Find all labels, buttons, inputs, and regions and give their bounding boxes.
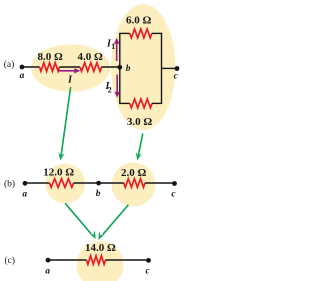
green arrow: series group to 12-ohm <box>58 87 70 161</box>
green arrow: 2-ohm to 14-ohm <box>98 205 128 240</box>
green arrow: parallel group to 2-ohm <box>136 134 143 161</box>
svg-text:6.0 Ω: 6.0 Ω <box>126 14 152 26</box>
svg-text:1: 1 <box>111 42 115 51</box>
svg-text:3.0 Ω: 3.0 Ω <box>127 116 153 128</box>
wire a to R12 <box>25 182 50 184</box>
green arrow: 12-ohm to 14-ohm <box>65 203 96 239</box>
node c <box>172 181 177 186</box>
resistor 12.0 ohm <box>50 179 74 188</box>
wire b to R2 <box>99 182 124 184</box>
svg-text:(c): (c) <box>5 255 16 266</box>
svg-text:(b): (b) <box>4 178 15 189</box>
wire R8 to R4 <box>60 66 81 68</box>
current arrow I2 <box>115 75 120 98</box>
node a <box>20 65 25 70</box>
svg-text:a: a <box>22 189 27 199</box>
highlight ellipse around parallel pair (a) <box>111 4 175 130</box>
wire: bottom left stub <box>119 102 130 104</box>
resistor 4.0 ohm <box>80 63 102 72</box>
current arrow I1 <box>114 38 119 61</box>
node c <box>175 66 180 71</box>
svg-text:8.0 Ω: 8.0 Ω <box>38 51 64 63</box>
wire: loop to node c <box>162 67 178 69</box>
svg-text:c: c <box>174 71 178 81</box>
wire: top left stub <box>119 32 130 34</box>
wire: right vertical of loop <box>161 33 163 103</box>
wire R12 to node b <box>74 182 99 184</box>
wire: top right stub <box>152 32 162 34</box>
svg-text:b: b <box>126 64 131 74</box>
wire: bottom right stub <box>152 102 162 104</box>
wire: left vertical of loop <box>119 33 121 103</box>
svg-text:b: b <box>96 189 101 199</box>
svg-text:a: a <box>20 71 25 81</box>
svg-text:2.0 Ω: 2.0 Ω <box>121 167 147 179</box>
node a <box>23 181 28 186</box>
resistor 3.0 ohm <box>130 99 152 108</box>
current arrow I <box>59 68 81 73</box>
resistor 2.0 ohm <box>124 179 145 188</box>
svg-text:(a): (a) <box>4 59 15 70</box>
wire a to R8 <box>22 66 40 68</box>
svg-text:2: 2 <box>108 85 112 94</box>
svg-text:a: a <box>45 267 50 277</box>
svg-text:14.0 Ω: 14.0 Ω <box>85 242 116 254</box>
highlight circle around 12-ohm (b) <box>45 164 85 204</box>
svg-text:c: c <box>146 267 150 277</box>
node b <box>96 181 101 186</box>
wire a to R14 <box>48 259 87 261</box>
wire R4 to node b <box>102 66 120 68</box>
resistor 14.0 ohm <box>87 256 106 265</box>
highlight circle around 14-ohm (c) <box>77 241 124 281</box>
svg-text:c: c <box>171 190 175 200</box>
highlight circle around 2-ohm (b) <box>112 163 156 207</box>
svg-text:12.0 Ω: 12.0 Ω <box>43 166 74 178</box>
resistor 6.0 ohm <box>130 29 152 38</box>
highlight ellipse around series pair (a) <box>31 44 110 92</box>
node c <box>146 258 151 263</box>
svg-text:4.0 Ω: 4.0 Ω <box>78 51 104 63</box>
wire R14 to node c <box>106 259 149 261</box>
resistor 8.0 ohm <box>40 63 60 72</box>
wire R2 to node c <box>145 182 175 184</box>
node b <box>117 65 122 70</box>
node a <box>46 258 51 263</box>
